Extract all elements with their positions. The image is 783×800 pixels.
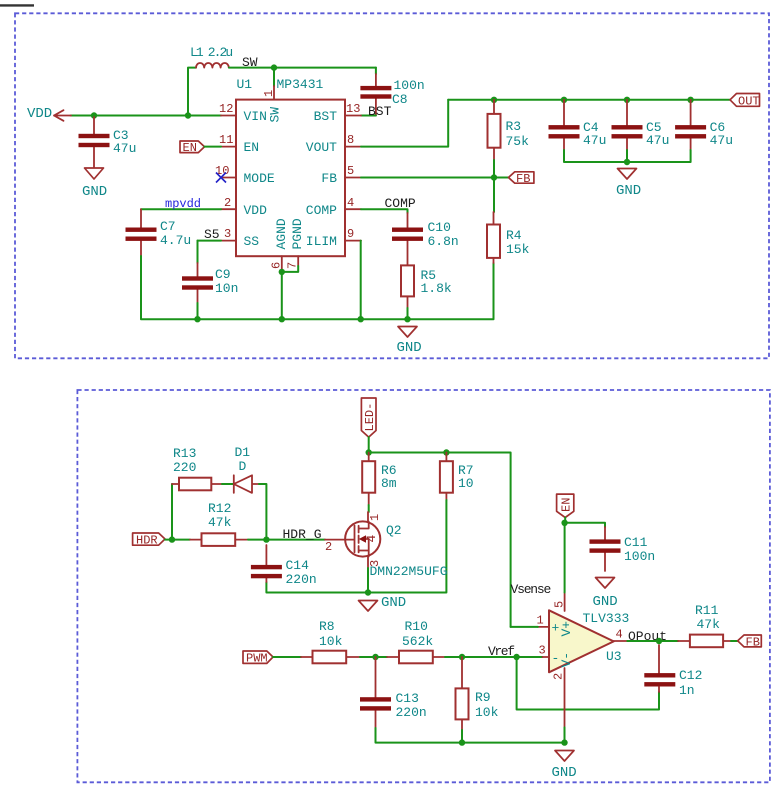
svg-text:5: 5 [553, 601, 567, 608]
svg-text:HDR_G: HDR_G [283, 527, 322, 542]
pin leads C4 [563, 100, 565, 150]
svg-text:TLV333: TLV333 [583, 611, 630, 626]
svg-text:COMP: COMP [385, 196, 416, 211]
svg-text:3: 3 [224, 227, 231, 241]
svg-text:R8: R8 [319, 619, 335, 634]
svg-text:562k: 562k [402, 634, 433, 649]
svg-text:1n: 1n [679, 683, 695, 698]
svg-text:R4: R4 [506, 228, 522, 243]
wire R7 to gnd row [368, 500, 446, 593]
svg-text:1: 1 [262, 90, 276, 97]
resistor R5 [401, 265, 414, 296]
svg-text:3: 3 [368, 560, 382, 567]
pin leads R10 [387, 656, 445, 658]
capacitor C9 [182, 276, 213, 289]
pin leads C14 [265, 545, 267, 582]
graphic dashed box section 1 [15, 13, 769, 358]
wire EN node to C11 [565, 523, 605, 527]
svg-text:R13: R13 [173, 446, 196, 461]
svg-text:8: 8 [347, 133, 354, 147]
pin leads C10 [407, 213, 409, 265]
junction FB [491, 174, 497, 180]
svg-text:L1 2.2u: L1 2.2u [190, 45, 232, 60]
svg-text:100n: 100n [624, 549, 655, 564]
wire V+ to EN node [564, 523, 566, 593]
svg-text:FB: FB [516, 172, 530, 186]
wire R10 to Vref node [445, 656, 543, 658]
pin lead C8 top [375, 74, 377, 116]
svg-text:EN: EN [244, 140, 260, 155]
pin leads R11 [678, 640, 731, 642]
junction C9/bus [194, 316, 200, 322]
pin 12 VIN stub [221, 115, 236, 117]
svg-text:2: 2 [552, 673, 566, 680]
power symbol VDD [54, 110, 71, 121]
svg-text:47k: 47k [208, 515, 232, 530]
svg-text:2: 2 [224, 196, 231, 210]
svg-text:2: 2 [325, 540, 332, 554]
wire C7 to gnd bus [141, 256, 198, 319]
wire R13 to D1 [222, 483, 234, 485]
pin 4 COMP stub [345, 208, 361, 210]
svg-text:10k: 10k [319, 634, 343, 649]
capacitor C12 [644, 673, 675, 686]
svg-text:220n: 220n [286, 572, 317, 587]
pin leads R12 [190, 539, 248, 541]
pin leads R9 [461, 657, 463, 730]
wire BST pin to C8 [361, 115, 376, 117]
svg-text:BST: BST [368, 104, 392, 119]
svg-text:10n: 10n [215, 281, 238, 296]
pin leads R8 [301, 656, 360, 658]
IC U1 MP3431 body [236, 100, 345, 257]
junction VDD/L1 [185, 112, 191, 118]
junction VDD/C3 [91, 112, 97, 118]
junction C13 [372, 654, 378, 660]
svg-text:EN: EN [183, 141, 197, 155]
wire C9 to gnd bus [197, 303, 199, 319]
capacitor C6 [675, 125, 706, 138]
svg-text:AGND: AGND [274, 218, 289, 249]
ground symbol GND (output caps) [618, 169, 637, 180]
svg-text:10k: 10k [475, 705, 499, 720]
svg-text:3: 3 [539, 644, 546, 658]
global label HDR [133, 533, 165, 548]
op-amp U3 TLV333 [549, 610, 614, 672]
wire feedback loop [517, 657, 659, 710]
wire AGND to bus [281, 272, 283, 319]
wire C7 branch [140, 209, 142, 256]
junction C5/rail [624, 97, 630, 103]
wire PWM to R8 [273, 656, 301, 658]
junction R7 top [443, 449, 449, 455]
svg-text:8m: 8m [381, 476, 397, 491]
ground symbol GND (U3) [555, 751, 574, 762]
pin 10 MODE stub [221, 177, 236, 179]
wire VDD pin 2 [141, 208, 221, 210]
svg-text:47k: 47k [697, 617, 721, 632]
wire HDR to R12 [165, 539, 190, 541]
pin 5 V+ stub [564, 593, 566, 612]
svg-text:C9: C9 [215, 267, 231, 282]
pin 5 FB stub [345, 177, 361, 179]
global label PWM [243, 651, 273, 666]
pin lead R5 bottom [407, 296, 409, 308]
svg-text:SW: SW [268, 107, 283, 123]
svg-text:C8: C8 [392, 92, 408, 107]
svg-text:C14: C14 [286, 558, 310, 573]
wire R6 to Q2 drain [368, 505, 370, 512]
pin 2 VDD stub [221, 208, 236, 210]
pin 11 EN stub [221, 146, 236, 148]
svg-text:R9: R9 [475, 690, 491, 705]
svg-text:Vsense: Vsense [511, 582, 551, 597]
svg-text:9: 9 [347, 227, 354, 241]
svg-text:S5: S5 [204, 227, 220, 242]
svg-text:MP3431: MP3431 [277, 77, 324, 92]
junction HDR/R13 [169, 536, 175, 542]
svg-text:1: 1 [368, 514, 382, 521]
wire gnd row to C14 [266, 582, 368, 593]
pin 9 ILIM stub [345, 240, 361, 242]
svg-text:SW: SW [242, 55, 258, 70]
resistor R4 [487, 225, 500, 258]
svg-text:VIN: VIN [244, 109, 267, 124]
svg-text:11: 11 [219, 133, 233, 147]
svg-text:1: 1 [537, 614, 544, 628]
junction C5/gnd [624, 159, 630, 165]
svg-text:Vref: Vref [488, 644, 514, 659]
wire PGND jog [282, 266, 298, 272]
wire R12 to gate node [248, 539, 266, 541]
junction Q2/gnd row [365, 589, 371, 595]
junction AGND/bus [279, 316, 285, 322]
svg-text:GND: GND [593, 594, 618, 610]
resistor R10 [399, 651, 433, 664]
wire R11 to FB [731, 640, 738, 642]
svg-text:D: D [239, 459, 247, 474]
svg-text:R10: R10 [405, 619, 428, 634]
pin leads C12 [658, 645, 660, 692]
wire SS to C9 [197, 241, 199, 263]
svg-text:100n: 100n [394, 78, 425, 93]
junction EN/C11 [561, 520, 567, 526]
svg-text:PWM: PWM [246, 652, 268, 666]
capacitor C10 [392, 228, 423, 241]
wire OUT rail [448, 99, 730, 101]
svg-text:C11: C11 [624, 535, 648, 550]
svg-text:U3: U3 [606, 649, 622, 664]
junction Vref/feedback [513, 654, 519, 660]
wire R8 to C13 node [360, 656, 387, 658]
svg-text:4: 4 [616, 628, 623, 642]
svg-text:47u: 47u [583, 133, 606, 148]
pin 2 gate of Q2 [325, 539, 354, 541]
wire Q2 source to gnd [367, 568, 369, 593]
wire R9 to gnd bus [461, 730, 463, 743]
ground symbol GND (C3) [85, 168, 104, 179]
wire VOUT to OUT rail [361, 100, 448, 147]
capacitor C8 [360, 86, 391, 99]
global label LED- (vertical) [361, 398, 376, 437]
resistor R9 [456, 688, 469, 719]
svg-text:6: 6 [270, 262, 284, 269]
svg-text:COMP: COMP [306, 203, 337, 218]
svg-text:GND: GND [552, 765, 577, 781]
svg-text:OUT: OUT [738, 95, 760, 109]
pin 6 AGND stub [281, 256, 283, 272]
junction R5/bus [404, 316, 410, 322]
wire top row to R7 and Vsense corner [369, 453, 511, 627]
junction C6/rail [687, 97, 693, 103]
global label EN (vertical) [557, 494, 574, 517]
pin 2 V- stub [564, 668, 566, 727]
wire V- to gnd bus [564, 727, 566, 742]
junction OPout/C12 [656, 638, 662, 644]
svg-text:EN: EN [560, 498, 574, 512]
svg-text:47u: 47u [646, 133, 669, 148]
no-connect X on MODE [216, 173, 226, 183]
junction LED-/R6 [366, 449, 372, 455]
pin leads C6 [690, 100, 692, 150]
svg-text:12: 12 [219, 102, 233, 116]
capacitor C5 [612, 125, 643, 138]
ground symbol GND (C11) [596, 578, 615, 589]
svg-text:FB: FB [321, 171, 337, 186]
svg-text:HDR: HDR [136, 534, 158, 548]
pin leads R6 [368, 453, 370, 506]
capacitor C4 [549, 125, 580, 138]
junction V-/gnd bus [561, 739, 567, 745]
ground symbol GND (Q2) [359, 601, 378, 612]
junction SW node [271, 64, 277, 70]
wire FB to R4 [493, 178, 495, 213]
resistor R6 [362, 461, 375, 493]
wire L1 riser [188, 68, 196, 116]
wire C5 gnd drop [626, 150, 628, 162]
resistor R3 [488, 114, 501, 148]
ground bus section1 [198, 263, 494, 319]
svg-text:10: 10 [458, 476, 474, 491]
svg-text:LED-: LED- [363, 403, 377, 432]
svg-text:4.7u: 4.7u [160, 233, 191, 248]
svg-text:FB: FB [746, 636, 760, 650]
svg-text:C10: C10 [428, 220, 451, 235]
svg-text:VOUT: VOUT [306, 140, 337, 155]
global label EN [180, 141, 205, 155]
wire ILIM drop [360, 241, 362, 320]
pin leads R4 [493, 212, 495, 263]
wire R3 to FB node [493, 160, 495, 178]
svg-text:ILIM: ILIM [306, 234, 337, 249]
wire EN to pin 11 [205, 146, 222, 148]
resistor R7 [440, 461, 453, 493]
wire C3 leads [93, 117, 95, 168]
svg-text:GND: GND [381, 595, 406, 611]
svg-text:R12: R12 [208, 501, 231, 516]
global label OUT [730, 94, 760, 109]
wire SW pin 1 drop [273, 68, 275, 86]
global label FB (section 2) [738, 635, 762, 650]
svg-text:VDD: VDD [27, 106, 52, 122]
svg-text:47u: 47u [710, 133, 733, 148]
svg-text:D1: D1 [235, 445, 251, 460]
pin leads R3 [493, 100, 495, 160]
pin 3 SS stub [221, 240, 236, 242]
wire EN drop [564, 518, 566, 523]
wire VDD rail [71, 115, 222, 117]
resistor R13 [179, 478, 211, 491]
svg-text:U1: U1 [237, 77, 253, 92]
svg-text:4: 4 [364, 535, 379, 543]
pin 3 source of Q2 [367, 557, 369, 569]
svg-text:PGND: PGND [290, 218, 305, 249]
sheet partial border line top-left [0, 4, 34, 6]
junction ILIM/bus [358, 316, 364, 322]
svg-text:220: 220 [173, 460, 196, 475]
diode D1 [234, 475, 259, 493]
pin 8 VOUT stub [345, 146, 361, 148]
pin leads C11 [604, 527, 606, 571]
wire caps bottom tie [564, 150, 691, 162]
wire COMP [361, 209, 408, 213]
junction C4/rail [561, 97, 567, 103]
wire HDR_G to Q2 gate [266, 539, 325, 541]
svg-text:V+: V+ [559, 621, 574, 637]
svg-text:GND: GND [82, 184, 107, 200]
svg-text:VDD: VDD [244, 203, 268, 218]
pin 3 (-) stub [543, 656, 549, 658]
transistor Q2 DMN22M5UFG [345, 521, 380, 556]
svg-text:220n: 220n [396, 705, 427, 720]
global label FB [509, 172, 534, 186]
svg-text:C7: C7 [160, 219, 176, 234]
junction C14/HDR_G [263, 536, 269, 542]
wire LED- drop [368, 437, 370, 452]
svg-text:GND: GND [397, 340, 422, 356]
resistor R8 [313, 651, 347, 664]
svg-text:13: 13 [346, 102, 360, 116]
wire C13 to gnd bus [376, 728, 565, 743]
pin 7 PGND stub [297, 256, 299, 266]
pin leads C9 [197, 263, 199, 303]
wire R5 to bus [407, 308, 409, 319]
wire SS pin [198, 240, 222, 242]
resistor R11 [690, 635, 723, 648]
svg-text:47u: 47u [113, 141, 136, 156]
capacitor C3 [79, 134, 110, 147]
svg-text:SS: SS [244, 234, 260, 249]
pin 1 (+) stub [538, 626, 549, 628]
svg-text:4: 4 [347, 196, 354, 210]
svg-text:MODE: MODE [244, 171, 275, 186]
junction AGND/PGND [279, 269, 285, 275]
capacitor C14 [251, 565, 282, 578]
svg-text:Q2: Q2 [386, 523, 402, 538]
svg-text:R3: R3 [506, 119, 522, 134]
svg-text:6.8n: 6.8n [428, 234, 459, 249]
inductor L1 [196, 63, 229, 68]
pin leads R7 [445, 453, 447, 501]
svg-text:1.8k: 1.8k [421, 281, 452, 296]
junction R9/Vref [459, 654, 465, 660]
svg-text:5: 5 [347, 164, 354, 178]
resistor R12 [202, 533, 236, 546]
pin 1 (SW) of U1 [273, 86, 275, 100]
junction R3/rail [491, 97, 497, 103]
svg-text:R11: R11 [695, 603, 719, 618]
pin 13 BST stub [345, 115, 361, 117]
svg-text:75k: 75k [506, 134, 530, 149]
wire output to R11 [627, 640, 678, 642]
ground symbol GND (bus) [398, 327, 417, 338]
pin leads C13 [375, 657, 377, 728]
wire Vsense into pin 1 [511, 626, 538, 628]
wire FB row [361, 177, 509, 179]
wire C8 top lead [375, 68, 377, 74]
svg-text:C13: C13 [396, 691, 419, 706]
pin leads R13 [172, 483, 222, 485]
svg-text:15k: 15k [506, 242, 530, 257]
wire R13 branch riser [171, 484, 173, 540]
svg-text:V-: V- [559, 652, 574, 668]
svg-text:GND: GND [616, 183, 641, 199]
graphic dashed box section 2 [77, 390, 770, 782]
capacitor C7 [126, 228, 157, 241]
wire L1 to SW node [229, 67, 376, 69]
svg-text:C12: C12 [679, 668, 702, 683]
svg-text:mpvdd: mpvdd [165, 197, 201, 211]
pin 4 output stub [614, 640, 628, 642]
pin 1 drain of Q2 [367, 512, 369, 522]
capacitor C13 [360, 697, 391, 710]
capacitor C11 [590, 539, 621, 552]
junction R9/gnd bus [459, 739, 465, 745]
wire D1 to gate node [259, 484, 266, 536]
pin leads C5 [626, 100, 628, 150]
svg-text:BST: BST [314, 109, 338, 124]
